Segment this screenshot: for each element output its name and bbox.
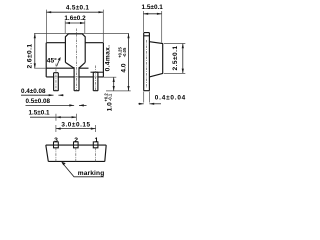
dimension 1.5±0.1 lead pitch xyxy=(29,109,77,120)
45 degree note with leader xyxy=(47,56,61,66)
svg-text:2.6±0.1: 2.6±0.1 xyxy=(27,43,34,68)
svg-text:0.4±0.04: 0.4±0.04 xyxy=(155,95,186,102)
dimension 0.4 max. vertical xyxy=(103,45,130,91)
front view body bottom line faint bridge across leads xyxy=(54,76,98,78)
side view centerline xyxy=(146,40,148,88)
dimension 1.0 +0.2/-0.1 lead length text xyxy=(103,93,113,112)
dimension 4.0 +0.25/-0.05 vertical xyxy=(118,33,130,90)
front view body outline xyxy=(46,43,103,77)
dimension 1.6±0.2 xyxy=(64,15,86,34)
svg-text:0.5±0.08: 0.5±0.08 xyxy=(26,98,51,105)
svg-text:-0.1: -0.1 xyxy=(108,93,113,101)
dimension 2.6±0.1 left vertical xyxy=(27,33,129,68)
dimension 0.4±0.04 lead thickness xyxy=(138,92,186,105)
svg-text:1.5±0.1: 1.5±0.1 xyxy=(142,4,164,11)
svg-text:2.5±0.1: 2.5±0.1 xyxy=(172,45,179,70)
dimension 2.5±0.1 side view right xyxy=(164,44,185,74)
svg-text:4.0: 4.0 xyxy=(121,63,128,72)
svg-text:-0.05: -0.05 xyxy=(122,47,127,57)
svg-text:3.0±0.15: 3.0±0.15 xyxy=(61,121,90,128)
svg-text:1.5±0.1: 1.5±0.1 xyxy=(29,109,50,116)
svg-text:4.5±0.1: 4.5±0.1 xyxy=(66,4,90,11)
bottom view pin 3 xyxy=(54,142,59,148)
front view tab with 45deg chamfers and taper xyxy=(65,34,85,68)
bottom view pin 1 xyxy=(93,142,98,148)
front view center lead xyxy=(74,67,79,91)
front view internal leadframe bottom line xyxy=(46,68,103,72)
svg-text:2: 2 xyxy=(74,137,78,144)
front view right lead xyxy=(93,72,98,91)
dimension 0.4±0.08 left lead width xyxy=(21,88,64,96)
side view body profile xyxy=(149,42,162,77)
front view centerlines dash-dot xyxy=(56,29,96,91)
dimension 1.5±0.1 side view top xyxy=(142,4,164,42)
svg-text:0.4max.: 0.4max. xyxy=(104,45,111,72)
svg-text:45°: 45° xyxy=(47,56,57,64)
dimension 3.0±0.15 lead span xyxy=(56,121,96,132)
side view leadframe strip xyxy=(144,33,150,91)
svg-text:1: 1 xyxy=(95,137,99,144)
front view left lead xyxy=(54,73,59,91)
svg-text:3: 3 xyxy=(54,137,58,144)
svg-text:0.4±0.08: 0.4±0.08 xyxy=(21,88,46,95)
bottom view body outline xyxy=(46,145,106,161)
dimension 0.5±0.08 center lead width xyxy=(26,98,87,107)
svg-text:1.0: 1.0 xyxy=(106,102,113,111)
svg-text:1.6±0.2: 1.6±0.2 xyxy=(64,15,86,22)
bottom view pin 2 xyxy=(74,142,79,148)
svg-text:marking: marking xyxy=(78,170,105,177)
marking note with leader xyxy=(61,162,104,178)
dimension 4.5±0.1 top xyxy=(46,4,103,42)
bottom view pin centerlines xyxy=(56,148,96,163)
